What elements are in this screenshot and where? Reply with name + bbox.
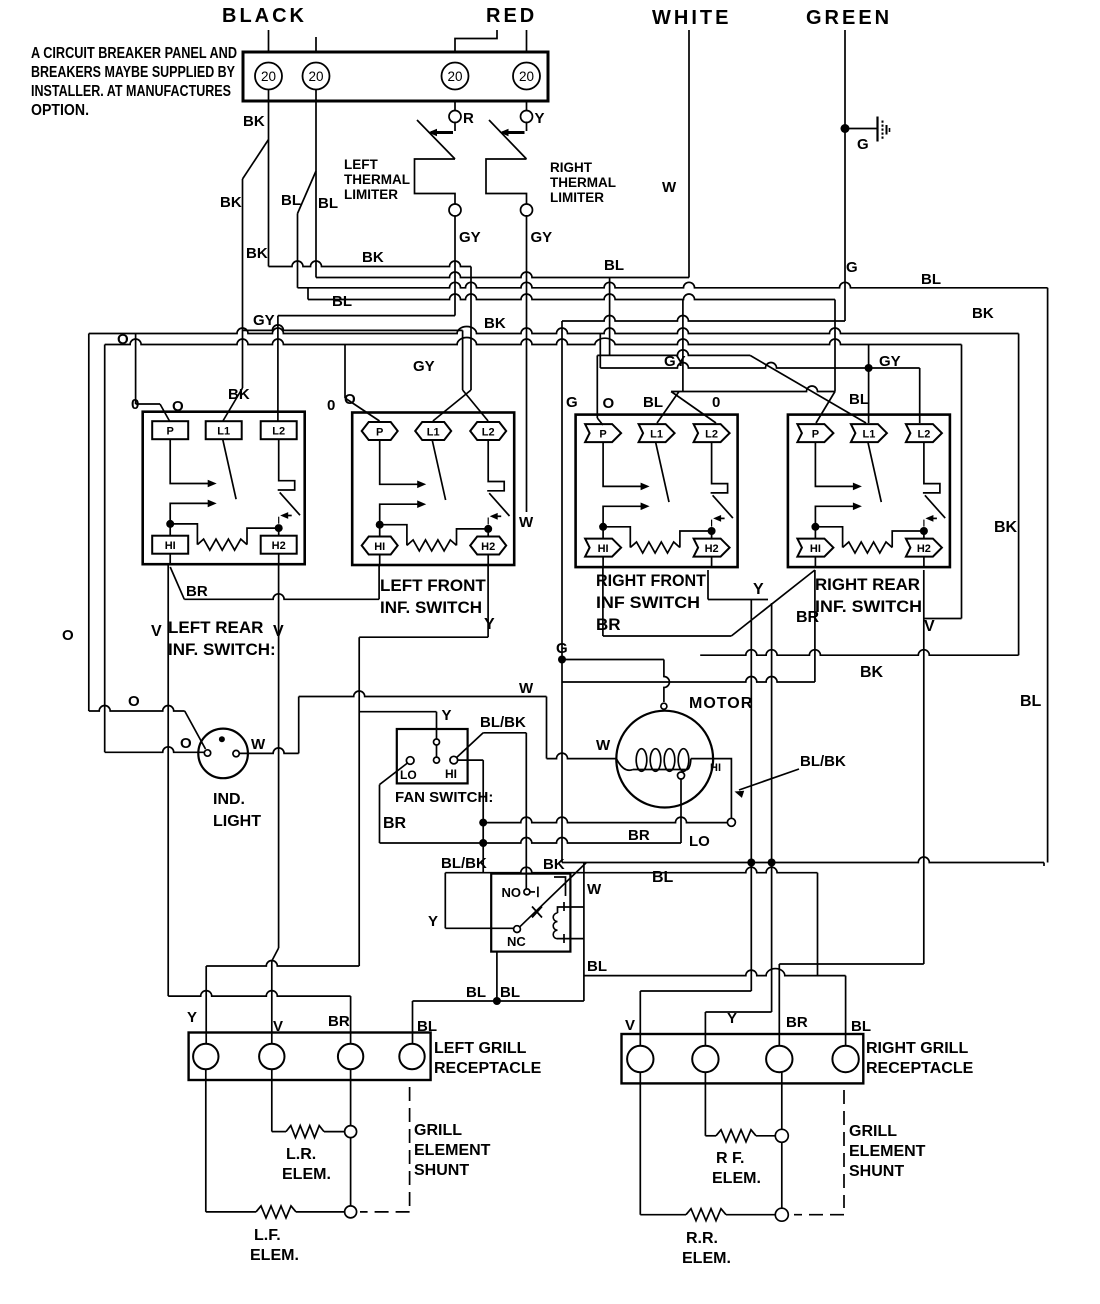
svg-text:V: V (151, 623, 162, 640)
svg-text:A CIRCUIT BREAKER PANEL AND: A CIRCUIT BREAKER PANEL AND (31, 45, 237, 62)
svg-text:L2: L2 (272, 426, 285, 438)
relay NO contact (524, 889, 530, 895)
wire Y to LF elem (205, 1069, 207, 1212)
right grill shunt dashed (843, 1090, 845, 1208)
svg-text:BL/BK: BL/BK (441, 855, 487, 872)
svg-text:Y: Y (753, 581, 764, 598)
svg-text:HI: HI (710, 762, 721, 774)
wire fan HI down (458, 759, 484, 761)
wire V to LR elem (271, 1069, 273, 1131)
svg-text:RECEPTACLE: RECEPTACLE (434, 1060, 542, 1077)
wire RED to breaker 4 (526, 30, 528, 52)
svg-text:O: O (344, 391, 356, 408)
svg-text:LEFT FRONT: LEFT FRONT (380, 576, 486, 595)
svg-text:Y: Y (484, 616, 495, 633)
svg-text:MOTOR: MOTOR (689, 695, 753, 712)
wire SW1 H2 V stem (278, 564, 280, 948)
svg-text:BK: BK (228, 386, 250, 403)
wire BLACK to breaker 1 (268, 30, 270, 52)
svg-text:L1: L1 (862, 429, 875, 441)
wire Y to RF elem (704, 1073, 706, 1136)
wire row H (104, 345, 106, 753)
wire RED to breaker 3 (455, 30, 497, 52)
fan switch LO terminal (406, 757, 414, 765)
svg-text:0: 0 (327, 397, 335, 414)
svg-text:BL: BL (1020, 693, 1042, 710)
wire Y drop 771 (771, 603, 773, 1012)
svg-text:P: P (167, 426, 174, 438)
svg-text:BR: BR (628, 827, 650, 844)
svg-text:FAN SWITCH:: FAN SWITCH: (395, 789, 493, 806)
svg-text:P: P (376, 427, 383, 439)
svg-text:ELEM.: ELEM. (712, 1170, 761, 1187)
svg-text:GRILL: GRILL (849, 1123, 897, 1140)
svg-text:LO: LO (400, 768, 417, 782)
svg-text:LEFT: LEFT (344, 157, 378, 172)
left grill terminal BR (338, 1044, 363, 1069)
node G junction (558, 656, 566, 664)
ind light filament dot (219, 736, 225, 742)
svg-text:GY: GY (459, 229, 481, 246)
svg-text:20: 20 (447, 69, 462, 84)
svg-text:L2: L2 (705, 429, 718, 441)
svg-text:WHITE: WHITE (652, 7, 731, 29)
svg-text:RIGHT FRONT: RIGHT FRONT (596, 571, 707, 590)
svg-text:BL: BL (652, 869, 674, 886)
svg-text:ELEMENT: ELEMENT (414, 1142, 491, 1159)
wire row A BK bus (269, 261, 472, 267)
svg-text:20: 20 (519, 69, 534, 84)
svg-text:LEFT REAR: LEFT REAR (168, 618, 263, 637)
svg-text:O: O (117, 331, 129, 348)
wire GY right limiter down (526, 215, 528, 512)
right grill terminal V (627, 1046, 653, 1072)
wire row D (308, 294, 835, 300)
right grill receptacle box (622, 1034, 864, 1083)
wire BK breaker1 down (268, 90, 270, 267)
svg-text:G: G (846, 259, 858, 276)
svg-text:BK: BK (362, 249, 384, 266)
motor stem terminal (661, 703, 667, 709)
wire SW2 P feed (344, 345, 346, 399)
svg-text:BR: BR (328, 1013, 350, 1030)
wire BL left vertical (297, 214, 299, 288)
svg-text:HI: HI (598, 543, 609, 555)
svg-text:BL: BL (500, 984, 520, 1001)
svg-text:R: R (463, 110, 474, 127)
svg-text:RIGHT GRILL: RIGHT GRILL (866, 1040, 968, 1057)
svg-text:L1: L1 (427, 427, 440, 439)
right grill terminal BL (832, 1046, 858, 1072)
svg-text:INSTALLER. AT MANUFACTURES: INSTALLER. AT MANUFACTURES (31, 83, 231, 100)
svg-text:LIGHT: LIGHT (213, 813, 261, 830)
wire LE bus (243, 325, 463, 331)
wire SW1 P feed (135, 334, 137, 405)
ind light left terminal (204, 750, 210, 756)
breaker 20A #1 (255, 63, 282, 90)
svg-text:BK: BK (246, 245, 268, 262)
svg-text:HI: HI (374, 541, 385, 553)
svg-text:GY: GY (253, 312, 275, 329)
svg-text:L.R.: L.R. (286, 1146, 316, 1163)
wire G from GREEN (844, 30, 846, 321)
svg-text:W: W (519, 680, 534, 697)
wire row G O bus (88, 334, 90, 712)
wire SW1 H1 V stem (167, 564, 169, 996)
svg-text:THERMAL: THERMAL (550, 175, 616, 190)
wire row C BL bus (298, 282, 1048, 288)
wire SW4 H1 stem down (814, 570, 816, 682)
svg-text:H2: H2 (705, 543, 719, 555)
wire fan HI out diag (457, 733, 484, 758)
svg-text:SHUNT: SHUNT (849, 1163, 904, 1180)
svg-text:V: V (273, 1018, 283, 1035)
svg-text:SHUNT: SHUNT (414, 1162, 469, 1179)
svg-text:RIGHT REAR: RIGHT REAR (815, 575, 920, 594)
svg-text:BL: BL (604, 257, 624, 274)
svg-text:W: W (596, 737, 611, 754)
svg-text:BR: BR (596, 615, 621, 634)
node BL junction (493, 997, 501, 1005)
svg-text:BL: BL (587, 958, 607, 975)
svg-text:ELEM.: ELEM. (250, 1247, 299, 1264)
svg-text:INF. SWITCH: INF. SWITCH (380, 598, 482, 617)
wire BL diagonal branch (298, 171, 317, 214)
svg-text:BK: BK (484, 315, 506, 332)
svg-text:W: W (519, 514, 534, 531)
svg-text:BL: BL (281, 192, 301, 209)
left rear inf switch SW1 (143, 412, 305, 565)
svg-text:INF. SWITCH:: INF. SWITCH: (168, 640, 276, 659)
svg-text:L2: L2 (482, 427, 495, 439)
wire relay Y in (444, 873, 446, 929)
left grill terminal BL (399, 1044, 424, 1069)
svg-text:W: W (662, 179, 677, 196)
svg-text:GY: GY (531, 229, 553, 246)
resistor L.R. ELEM (286, 1126, 324, 1138)
wire BL/BK arrow (739, 769, 799, 790)
svg-text:BR: BR (383, 815, 407, 832)
svg-text:Y: Y (187, 1009, 197, 1026)
wire GY row E (454, 216, 456, 316)
right rear inf switch SW4 (788, 415, 950, 567)
svg-text:BK: BK (243, 113, 265, 130)
svg-text:R.R.: R.R. (686, 1230, 718, 1247)
LF shunt terminal (345, 1206, 357, 1218)
left grill receptacle box (189, 1033, 431, 1081)
motor HI terminal (727, 818, 735, 826)
motor coil (636, 749, 647, 772)
right front inf switch SW3 (576, 415, 738, 567)
svg-text:BK: BK (220, 194, 242, 211)
svg-text:V: V (625, 1017, 635, 1034)
wire V drop 751 (750, 600, 752, 992)
terminal R (449, 111, 461, 123)
wire BK bus motor (700, 650, 1018, 655)
wire fan LO out (380, 763, 408, 785)
wire GY row right (599, 334, 601, 369)
svg-text:GY: GY (879, 353, 901, 370)
svg-text:BK: BK (972, 305, 994, 322)
svg-text:H2: H2 (917, 543, 931, 555)
wire row H right hook (924, 618, 962, 620)
wire BL bus bottom (562, 857, 1044, 862)
svg-text:ELEMENT: ELEMENT (849, 1143, 926, 1160)
svg-text:LEFT GRILL: LEFT GRILL (434, 1040, 527, 1057)
svg-text:NC: NC (507, 934, 526, 949)
wire SW3 H2 Y bus (707, 570, 709, 600)
circuit breaker panel box (243, 52, 548, 101)
svg-text:LIMITER: LIMITER (344, 187, 398, 202)
svg-text:HI: HI (165, 540, 176, 552)
wire relay NC stem (496, 952, 498, 1001)
svg-text:BL: BL (851, 1018, 871, 1035)
wire BR bus mid (380, 838, 682, 843)
svg-text:LO: LO (689, 833, 710, 850)
svg-text:20: 20 (261, 69, 276, 84)
wire motor HI lead (691, 759, 732, 819)
relay coil (553, 913, 557, 939)
svg-text:BREAKERS MAYBE SUPPLIED BY: BREAKERS MAYBE SUPPLIED BY (31, 64, 235, 81)
svg-text:W: W (251, 736, 266, 753)
svg-text:LIMITER: LIMITER (550, 190, 604, 205)
LR shunt terminal (345, 1126, 357, 1138)
svg-text:OPTION.: OPTION. (31, 102, 89, 119)
svg-text:Y: Y (535, 110, 545, 127)
resistor R.R. ELEM (686, 1209, 726, 1221)
svg-text:G: G (857, 136, 869, 153)
svg-text:L1: L1 (217, 426, 230, 438)
svg-text:O: O (180, 735, 192, 752)
resistor R.F. ELEM (716, 1130, 756, 1142)
svg-text:0: 0 (131, 396, 139, 413)
svg-text:BL: BL (332, 293, 352, 310)
svg-text:INF. SWITCH: INF. SWITCH (815, 597, 922, 616)
right thermal limiter (526, 122, 528, 132)
breaker 20A #4 (513, 63, 540, 90)
svg-text:GREEN: GREEN (806, 7, 892, 29)
wire motor LO lead (678, 772, 685, 779)
wire SW4 L1 vertical (868, 345, 870, 424)
terminal Y (521, 111, 533, 123)
resistor L.F. ELEM (256, 1206, 296, 1218)
svg-text:BL: BL (417, 1018, 437, 1035)
svg-text:BL: BL (921, 271, 941, 288)
svg-text:O: O (62, 627, 74, 644)
svg-text:BL/BK: BL/BK (480, 714, 526, 731)
wire BK diagonal branch (243, 140, 269, 180)
svg-text:RECEPTACLE: RECEPTACLE (866, 1060, 974, 1077)
RF shunt terminal (775, 1129, 788, 1142)
svg-text:NO: NO (502, 885, 522, 900)
svg-text:20: 20 (308, 69, 323, 84)
wire O ind light 2 (105, 747, 205, 753)
wire BL row right (682, 300, 684, 392)
wire SW1 L1 feed (223, 388, 243, 421)
left thermal limiter (454, 122, 456, 132)
svg-text:ELEM.: ELEM. (282, 1166, 331, 1183)
wire BLACK to breaker 2 (315, 37, 317, 52)
wire O ind light 1 (89, 706, 185, 711)
wire BL/BK bus (445, 867, 817, 873)
node BL/BK junction 1 (479, 819, 487, 827)
wire SW1 BR link (170, 567, 184, 599)
wire BR down right (781, 1073, 783, 1130)
wire diag to SW4 L1 (750, 355, 866, 423)
svg-text:ELEM.: ELEM. (682, 1250, 731, 1267)
wire BL breaker2 down (315, 90, 317, 278)
svg-text:H2: H2 (272, 540, 286, 552)
svg-text:L2: L2 (917, 429, 930, 441)
svg-text:P: P (812, 429, 819, 441)
wire W from ind light (239, 748, 298, 754)
ind light circle (198, 729, 248, 779)
relay blade (520, 863, 587, 927)
ground symbol (841, 124, 850, 133)
svg-text:BL: BL (849, 391, 869, 408)
svg-text:V: V (273, 623, 284, 640)
svg-text:IND.: IND. (213, 791, 245, 808)
svg-text:G: G (556, 640, 568, 657)
wire RF elem to shunt (756, 1135, 775, 1137)
svg-text:GY: GY (413, 358, 435, 375)
svg-text:P: P (599, 429, 606, 441)
svg-text:Y: Y (428, 913, 438, 930)
svg-text:0: 0 (712, 394, 720, 411)
svg-text:BL/BK: BL/BK (800, 753, 846, 770)
wire SW4 H1 BR diagonal (731, 570, 815, 636)
fan switch center terminals (434, 739, 440, 745)
wire LR elem to shunt (324, 1131, 345, 1133)
wire relay W out (583, 863, 585, 1002)
wire BL drop left grill (412, 1001, 414, 1044)
svg-text:BL: BL (643, 394, 663, 411)
wire X feed SW2 (433, 390, 471, 421)
svg-text:BR: BR (186, 583, 208, 600)
svg-text:BK: BK (860, 664, 884, 681)
right grill terminal Y (692, 1046, 718, 1072)
fan switch box (397, 729, 468, 783)
right grill terminal BR (766, 1046, 792, 1072)
svg-text:BLACK: BLACK (222, 5, 307, 27)
svg-text:THERMAL: THERMAL (344, 172, 410, 187)
wire BK to relay NO (525, 733, 527, 889)
svg-text:W: W (587, 881, 602, 898)
wire fan Y input (436, 712, 438, 739)
wire G row low (562, 677, 815, 683)
wire row D branch (307, 288, 309, 300)
breaker 20A #3 (442, 63, 469, 90)
wire W from WHITE (688, 30, 690, 278)
svg-text:L.F.: L.F. (254, 1227, 281, 1244)
wire SW2 H1 stem (378, 565, 380, 599)
wire SW4 H2 V stem (923, 570, 925, 964)
wire RR elem to shunt (726, 1214, 775, 1216)
breaker 20A #2 (303, 63, 330, 90)
wire SW3 P feed row (597, 350, 750, 356)
wire BL/BK to motor HI (483, 817, 727, 823)
svg-text:O: O (603, 395, 615, 412)
svg-text:HI: HI (445, 767, 457, 781)
svg-text:BK: BK (994, 519, 1018, 536)
wire motor W lead (547, 753, 617, 758)
wire BR down through (350, 1069, 352, 1125)
fan switch HI terminal (450, 756, 458, 764)
relay box (491, 874, 570, 952)
wire Y down left (358, 637, 360, 966)
wire row B (316, 272, 689, 278)
svg-text:GRILL: GRILL (414, 1122, 462, 1139)
wire SW2 H2 Y route (487, 565, 489, 637)
wire G to motor (562, 659, 664, 661)
left grill terminal Y (193, 1044, 218, 1069)
svg-text:Y: Y (442, 707, 452, 724)
svg-text:G: G (566, 394, 578, 411)
wire BK left vertical (242, 179, 244, 388)
svg-text:L1: L1 (650, 429, 663, 441)
svg-text:INF SWITCH: INF SWITCH (596, 593, 700, 612)
relay NC contact (514, 926, 521, 933)
left front inf switch SW2 (352, 413, 514, 566)
ind light right terminal (233, 750, 239, 756)
wire BL right grill (584, 969, 846, 976)
left grill shunt dashed (409, 1087, 411, 1206)
svg-text:Y: Y (727, 1010, 737, 1027)
wire SW3 H1 BR (602, 567, 604, 636)
svg-text:V: V (924, 618, 935, 635)
svg-text:RIGHT: RIGHT (550, 160, 593, 175)
RR shunt terminal (775, 1208, 788, 1221)
wire G vertical (561, 321, 563, 863)
left grill terminal V (259, 1044, 284, 1069)
wire BL to left grill (413, 1000, 584, 1002)
node BL/BK junction 2 (479, 839, 487, 847)
svg-text:BK: BK (543, 856, 565, 873)
motor circle (616, 711, 713, 808)
svg-text:BL: BL (466, 984, 486, 1001)
svg-text:BL: BL (318, 195, 338, 212)
svg-text:R F.: R F. (716, 1150, 744, 1167)
wire V to RR elem (639, 1073, 641, 1215)
svg-text:BR: BR (786, 1014, 808, 1031)
svg-text:BR: BR (796, 609, 820, 626)
svg-text:H2: H2 (481, 541, 495, 553)
wire row F G bus (562, 316, 845, 321)
wire LF elem to shunt (296, 1211, 345, 1213)
wire BR drop left grill (350, 996, 352, 1044)
svg-text:O: O (128, 693, 140, 710)
svg-text:HI: HI (810, 543, 821, 555)
svg-text:RED: RED (486, 5, 537, 27)
